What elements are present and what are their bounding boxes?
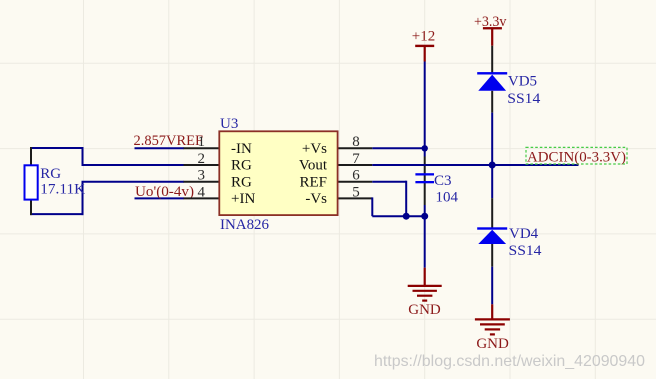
svg-text:2.857VREF: 2.857VREF [134, 133, 204, 149]
pin 4 lead [184, 197, 221, 199]
junction dot: Vout / diode rail [489, 162, 496, 169]
junction dot: +Vs / +12 [422, 145, 428, 151]
op-amp U3 body (INA826) [219, 131, 337, 215]
wire: pin 5 -Vs net drop [371, 197, 373, 216]
wire: RG loop right vertical lower [82, 182, 84, 215]
pin number 7 [352, 151, 360, 167]
pin 3 lead [184, 181, 221, 183]
ground GND (left) stub [424, 268, 426, 286]
pin 6 lead [337, 181, 373, 183]
pin name +IN [231, 191, 255, 207]
svg-text:+3.3v: +3.3v [474, 14, 507, 30]
ground GND (right) stub [491, 304, 493, 319]
pin name +Vs [302, 141, 327, 157]
wire: ground node horizontal [372, 215, 424, 217]
diode VD4 designator [509, 226, 539, 242]
resistor RG lead bottom [30, 200, 32, 216]
wire: VD4 to GND [491, 267, 493, 305]
diode VD4 bottom lead [491, 244, 493, 267]
svg-text:SS14: SS14 [507, 91, 541, 107]
pin 8 lead [337, 147, 373, 149]
net label Uo'(0-4v) [135, 184, 194, 200]
op-amp U3 designator [220, 116, 238, 132]
wire: pin 2 net [82, 164, 185, 166]
power port +12 stub [424, 46, 426, 62]
ground GND (right) bars [475, 319, 510, 334]
resistor RG lead top [30, 147, 32, 165]
svg-text:GND: GND [476, 336, 509, 352]
diode VD4 anode triangle [478, 230, 506, 244]
pin number 8 [352, 134, 360, 150]
svg-text:ADCIN(0-3.3V): ADCIN(0-3.3V) [527, 150, 626, 166]
pin name REF [299, 174, 327, 190]
junction dot: cap at ground node [421, 213, 428, 220]
svg-text:3: 3 [198, 168, 206, 184]
diode VD5 cathode bar [477, 72, 507, 74]
svg-text:C3: C3 [434, 173, 452, 189]
svg-text:RG: RG [40, 166, 61, 182]
wire: cap bottom to ground node [424, 205, 426, 217]
pin 2 lead [184, 164, 221, 166]
wire: +12 rail vertical [424, 62, 426, 157]
wire: pin 3 net [82, 181, 185, 183]
power port +12 label [412, 29, 435, 45]
pin number 4 [198, 184, 206, 200]
pin 7 lead [337, 164, 373, 166]
wire: pin 4 net (+IN) [135, 197, 185, 199]
svg-text:SS14: SS14 [509, 243, 543, 259]
pin number 6 [352, 168, 360, 184]
svg-text:104: 104 [436, 190, 459, 206]
resistor RG value 17.11K [40, 181, 85, 197]
pin 1 lead [184, 147, 221, 149]
svg-text:6: 6 [352, 168, 360, 184]
ground GND (right) label [476, 336, 509, 352]
watermark [374, 353, 645, 370]
svg-text:8: 8 [352, 134, 360, 150]
power port +3.3v label [474, 14, 507, 30]
svg-text:+Vs: +Vs [302, 141, 327, 157]
svg-text:RG: RG [231, 174, 252, 190]
ground GND (left) label [408, 302, 441, 318]
wire: pin 1 net (-IN) [135, 147, 185, 149]
wire: ground node to GND stub [424, 216, 426, 268]
wire: RG loop top horizontal (node to pin 2) [30, 147, 84, 149]
wire: pin 7 Vout net [372, 164, 578, 166]
svg-text:INA826: INA826 [220, 217, 269, 233]
ground GND (left) bars [408, 286, 442, 301]
diode VD4 part SS14 [509, 243, 543, 259]
junction dot: REF at ground node [403, 213, 410, 220]
resistor RG body [25, 165, 38, 199]
op-amp U3 part number INA826 [220, 217, 269, 233]
svg-text:2: 2 [198, 151, 206, 167]
wire: RG loop bottom horizontal [30, 213, 84, 215]
capacitor C3 designator [434, 173, 452, 189]
pin number 1 [198, 134, 206, 150]
wire: pin 8 to +12 rail [372, 147, 424, 149]
power port +3.3v bar [483, 27, 502, 29]
diode VD5 bottom lead [491, 91, 493, 113]
pin name -IN [231, 141, 252, 157]
diode VD5 designator [508, 74, 537, 90]
svg-text:-IN: -IN [231, 141, 252, 157]
svg-text:1: 1 [198, 134, 206, 150]
svg-text:17.11K: 17.11K [40, 181, 85, 197]
svg-text:GND: GND [408, 302, 441, 318]
pin name RG (pin 3) [231, 174, 252, 190]
svg-text:7: 7 [352, 151, 360, 167]
pin number 2 [198, 151, 206, 167]
svg-text:+IN: +IN [231, 191, 255, 207]
capacitor C3 plates [415, 173, 434, 183]
wire: pin 6 REF net drop [405, 181, 407, 217]
power port +12 bar [415, 45, 434, 47]
pin name RG (pin 2) [231, 158, 252, 174]
pin number 5 [352, 184, 360, 200]
svg-text:RG: RG [231, 158, 252, 174]
svg-text:5: 5 [352, 184, 360, 200]
net label ADCIN(0-3.3V) [527, 150, 626, 166]
svg-text:https://blog.csdn.net/weixin_4: https://blog.csdn.net/weixin_42090940 [374, 353, 645, 370]
svg-text:Vout: Vout [299, 158, 328, 174]
wire: RG loop right vertical upper [82, 147, 84, 165]
power port +3.3v stub [491, 28, 493, 46]
svg-text:-Vs: -Vs [305, 191, 327, 207]
svg-text:+12: +12 [412, 29, 435, 45]
diode VD5 part SS14 [507, 91, 541, 107]
svg-text:VD4: VD4 [509, 226, 539, 242]
svg-text:REF: REF [299, 174, 327, 190]
resistor RG designator [40, 166, 61, 182]
pin number 3 [198, 168, 206, 184]
pin name Vout [299, 158, 328, 174]
svg-text:4: 4 [198, 184, 206, 200]
diode VD5 anode triangle [478, 75, 506, 91]
net label ADCIN(0-3.3V) selection box [526, 147, 627, 164]
capacitor C3 value 104 [436, 190, 459, 206]
pin name -Vs [305, 191, 327, 207]
capacitor C3 top lead [424, 157, 426, 206]
net label 2.857VREF [134, 133, 204, 149]
svg-text:VD5: VD5 [508, 74, 537, 90]
svg-text:U3: U3 [220, 116, 238, 132]
wire: pin 6 REF net horizontal [372, 181, 406, 183]
wire: VD5 to Vout node [491, 113, 493, 199]
diode VD5 top lead [491, 46, 493, 73]
diode VD4 top lead [491, 198, 493, 229]
diode VD4 cathode bar [477, 227, 507, 229]
pin 5 lead [337, 197, 373, 199]
